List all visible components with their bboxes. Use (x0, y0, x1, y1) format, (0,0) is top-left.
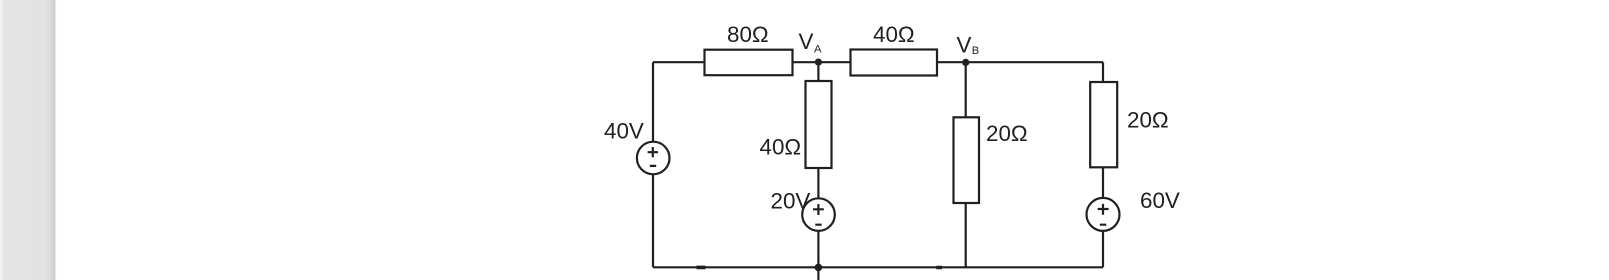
svg-text:A: A (814, 44, 822, 56)
svg-text:40V: 40V (604, 118, 644, 143)
svg-text:V: V (957, 32, 972, 57)
svg-text:B: B (972, 45, 979, 57)
svg-text:20Ω: 20Ω (986, 121, 1028, 146)
svg-text:20Ω: 20Ω (1127, 108, 1169, 133)
svg-text:40Ω: 40Ω (873, 22, 915, 47)
svg-text:60V: 60V (1140, 188, 1180, 213)
svg-text:V: V (799, 29, 814, 54)
svg-text:40Ω: 40Ω (760, 134, 802, 159)
svg-text:20V: 20V (771, 189, 811, 214)
svg-text:80Ω: 80Ω (727, 22, 769, 47)
